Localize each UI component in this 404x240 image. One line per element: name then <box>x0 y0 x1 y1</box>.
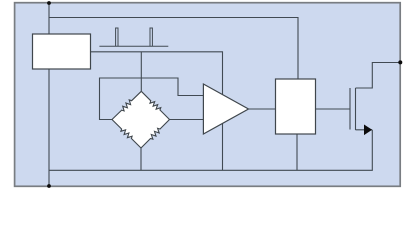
wire: left rail bottom (U1 to ground rail) <box>48 69 50 186</box>
block U3 <box>276 79 316 134</box>
bridge body (white diamond) <box>112 91 170 148</box>
wire: supply bus from U1 <box>91 52 223 171</box>
wire: ground bus <box>49 130 372 170</box>
IC package outline <box>15 3 401 187</box>
wire: U3 bottom to ground bus <box>296 134 298 170</box>
regulator block U1 <box>33 34 91 69</box>
op-amp U2 <box>203 84 248 134</box>
bridge resistor R2 (top-right) <box>141 91 169 119</box>
wire: bridge right tap to op-amp - input <box>170 119 204 121</box>
bridge resistor R1 (top-left) <box>112 91 141 119</box>
bridge resistor R4 (bottom-right) <box>141 120 170 149</box>
wire: top bus <box>49 18 298 80</box>
Q1 channel bar <box>355 88 357 130</box>
junction dot: right drain node <box>398 60 402 64</box>
wire: bridge excitation drop <box>140 52 142 92</box>
transistor Q1 (MOSFET) <box>350 88 372 130</box>
wire: bridge left tap to op-amp + input <box>100 78 204 120</box>
junction dot: bottom ground node <box>47 184 51 188</box>
junction dot: top input node <box>47 1 51 5</box>
wire: left rail top (node IN to U1) <box>48 3 50 34</box>
bridge resistor R3 (bottom-left) <box>112 120 141 149</box>
Q1 source wire <box>356 129 373 131</box>
wire: Q1 drain to right rail <box>356 63 401 89</box>
wire: U3 to Q1 gate <box>316 108 351 110</box>
Q1 source arrow <box>364 125 371 134</box>
Q1 gate bar <box>349 88 351 130</box>
wire: op-amp output to U3 <box>249 108 276 110</box>
pulse waveform annotation <box>99 28 168 46</box>
wire: bridge bottom to ground bus <box>140 148 142 170</box>
